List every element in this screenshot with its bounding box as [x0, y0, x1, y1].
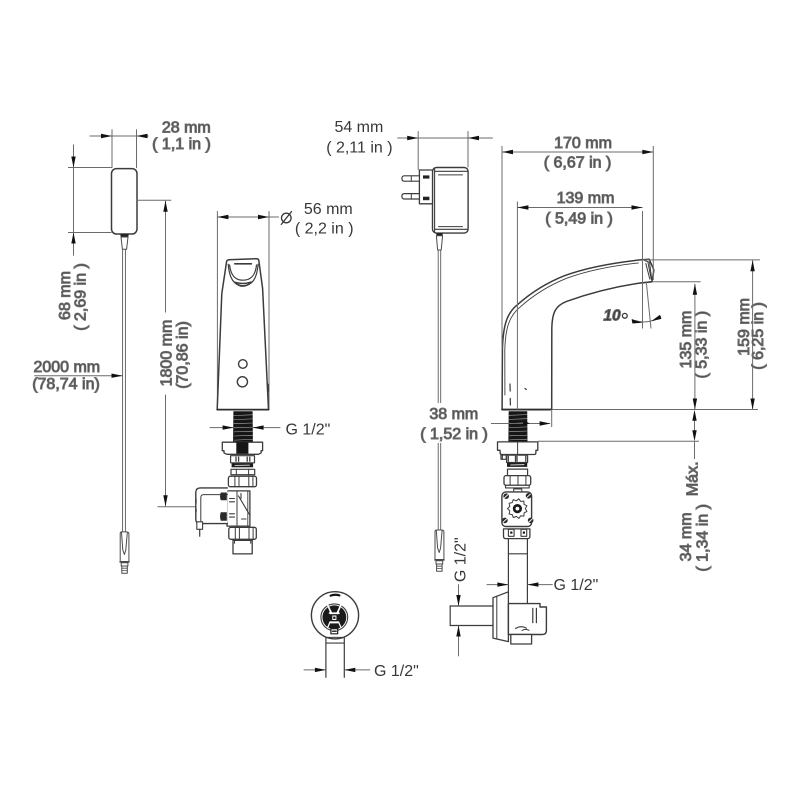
dimension 159 mm: line [752, 260, 754, 409]
gear pattern [508, 499, 527, 519]
strain relief cone [436, 236, 442, 250]
gland wire [199, 529, 201, 536]
svg-text:( 6,67 in ): ( 6,67 in ) [544, 154, 612, 171]
dimension 54 mm: extension lines [417, 132, 419, 170]
angle 10 deg: arc with arrows [632, 317, 661, 322]
solenoid valve body [502, 492, 532, 527]
dimension 139 mm: line [517, 207, 642, 209]
cable gland below box [197, 522, 203, 530]
flange side tab [501, 455, 506, 459]
tee interior marks [230, 494, 251, 520]
svg-text:38 mm: 38 mm [429, 406, 478, 423]
G 1/2 dimension (right pipe): lines [487, 584, 508, 586]
cable connector plug (right) [435, 530, 445, 571]
mounting flange [222, 442, 262, 454]
union nut (right) [504, 476, 531, 486]
thread hatch lines [234, 415, 253, 440]
spout top reference line [642, 259, 760, 261]
spout tip edge [645, 261, 653, 282]
control box inner lines [201, 495, 228, 524]
svg-text:( 2,11 in ): ( 2,11 in ) [326, 140, 392, 157]
mounting flange (right) [498, 442, 538, 455]
text mask for 38mm over cable [424, 403, 456, 443]
dimension 170 mm: extension lines [501, 146, 503, 350]
sensor lower lip [235, 282, 252, 283]
box mounting bolt lower [220, 512, 227, 520]
dimension 28 mm: arrows [101, 134, 112, 138]
inner ring circle [321, 604, 348, 631]
dimension Ø56 mm: extension lines [216, 212, 218, 410]
svg-text:G 1/2": G 1/2" [286, 421, 331, 438]
svg-text:2000 mm: 2000 mm [33, 359, 100, 376]
escutcheon bottom edge line [326, 642, 344, 644]
pipe joint line [508, 553, 527, 555]
adapter cable exit bushing [120, 234, 128, 237]
svg-text:1800 mm: 1800 mm [158, 320, 175, 387]
body front face line [434, 168, 436, 232]
wall supply pipe (horizontal) [450, 605, 493, 607]
dimension 38 mm: arrow at shank edge [523, 421, 530, 426]
body bottom inner line [435, 228, 468, 230]
dimension 170 mm: line [502, 151, 653, 153]
dark thread band [232, 463, 254, 467]
faucet base line [217, 409, 268, 411]
dimension max 34 mm: arrows [692, 410, 696, 421]
hex nut section (right) [507, 455, 528, 462]
inlet pipe end [233, 540, 252, 554]
dimension 38 mm: leader line [491, 423, 550, 425]
sensor window arc inner [230, 265, 257, 280]
elbow valve body [508, 604, 546, 635]
aerator inner blobs [327, 613, 331, 623]
dimension Ø56 mm: arrows [217, 215, 228, 219]
aerator top center blob [332, 606, 338, 613]
wall escutcheon (side view) [493, 592, 508, 642]
wall elbow front view: escutcheon outer circle [311, 592, 358, 639]
supply pipe (right, vertical) [507, 539, 509, 604]
svg-text:54 mm: 54 mm [334, 119, 383, 136]
union nut upper [228, 476, 256, 487]
power adapter (front view) body [112, 169, 138, 234]
prong upper [402, 176, 420, 181]
solenoid valve top tab [514, 489, 522, 492]
dimension 139 mm: extension lines [516, 202, 518, 410]
supply pipe (front view) [325, 638, 327, 678]
elbow body slots [532, 608, 534, 622]
svg-text:( 1,52 in ): ( 1,52 in ) [420, 426, 488, 443]
deck reference line [552, 409, 758, 411]
box left edge dashes [195, 500, 197, 503]
dimension 139 mm: arrows [517, 205, 528, 209]
dimension 68 mm: arrows [71, 157, 75, 168]
G 1/2 arrows [223, 425, 234, 429]
svg-text:(70,86 in): (70,86 in) [174, 321, 191, 389]
LED circle lower [237, 377, 247, 387]
dimension 54 mm: arrows [407, 136, 418, 140]
dimension max 34 mm: line segments [694, 413, 696, 438]
counter bottom reference line [538, 440, 699, 442]
prong slot marks [423, 175, 429, 178]
dimension 68 mm: extension lines [68, 167, 112, 169]
dimension 1800 mm: vertical line segments [165, 201, 167, 313]
cable connector plug (left) [120, 532, 129, 573]
dimension 28 mm: extension lines [111, 129, 113, 168]
collar section (right) [508, 469, 528, 476]
outlet face [640, 282, 652, 283]
sensor window arc outer [228, 264, 258, 285]
solenoid center ring [513, 504, 522, 513]
spout faucet outline (side view) [502, 259, 654, 409]
body tick marks [509, 384, 511, 391]
svg-text:( 5,49 in ): ( 5,49 in ) [545, 211, 613, 228]
sensor window upper slot [235, 263, 252, 265]
fitting axis line [517, 443, 519, 462]
svg-text:( 1,34 in ): ( 1,34 in ) [694, 504, 711, 572]
corner screws [503, 493, 509, 499]
dimension 170 mm: arrows [502, 150, 513, 154]
faucet base line (right) [502, 409, 552, 411]
hex nut section [231, 456, 255, 463]
tee valve body [227, 491, 250, 526]
svg-text:34 mm: 34 mm [678, 512, 695, 561]
svg-text:( 1,1 in ): ( 1,1 in ) [152, 136, 211, 153]
adapter cable (right) [437, 250, 439, 530]
wall pipe diameter dimension [458, 585, 460, 606]
threaded shank (black, right) [508, 411, 527, 442]
adapter cable (2000 mm) [122, 250, 124, 533]
svg-text:Máx.: Máx. [685, 461, 702, 496]
dimension Ø56 mm: line [217, 216, 278, 218]
G 1/2 arrows [315, 668, 326, 672]
dimension 54 mm: line [398, 137, 493, 139]
svg-text:135 mm: 135 mm [678, 311, 695, 369]
spout inner highlight curve [505, 263, 639, 395]
dimension Ø56 mm: diameter symbol [282, 213, 292, 223]
svg-text:28 mm: 28 mm [162, 120, 211, 137]
adapter strain relief cone [121, 237, 128, 249]
sensor faucet body (front view) [217, 259, 268, 410]
aerator white slits [328, 605, 331, 613]
svg-text:( 5,33 in ): ( 5,33 in ) [694, 311, 711, 379]
aerator center square [332, 615, 338, 621]
body top inner line [435, 170, 468, 172]
svg-text:56 mm: 56 mm [304, 201, 353, 218]
aerator hatch marks in tip [646, 264, 650, 280]
svg-text:(78,74 in): (78,74 in) [32, 376, 100, 393]
svg-text:G 1/2": G 1/2" [374, 663, 419, 680]
strain relief bushing (black) [436, 233, 443, 235]
body bottom decor line [439, 226, 463, 228]
leader 2000 mm: line with arrow to cable [34, 375, 122, 377]
outlet reference line [653, 281, 701, 283]
svg-text:170 mm: 170 mm [554, 135, 612, 152]
elbow water mark [516, 627, 527, 629]
union nut lower [229, 527, 256, 539]
dimension 1800 mm: top leader from adapter [136, 199, 171, 201]
dimension 135 mm: arrows [693, 284, 697, 295]
escutcheon top inner arc mark [331, 594, 340, 597]
LED circle upper [239, 360, 248, 369]
solenoid bottom connector [504, 529, 530, 539]
prong lower [402, 194, 420, 199]
power adapter (side view) body [433, 168, 469, 234]
G 1/2 dimension (mid faucet): lines [210, 427, 233, 429]
aerator bottom tab [331, 629, 338, 634]
dark thread band (right) [507, 463, 527, 467]
dimension 1800 mm: bottom extension line [158, 506, 196, 508]
angle 10 deg: tilted axis line [646, 282, 651, 329]
elbow bottom port [511, 635, 532, 645]
svg-text:( 6,25 in ): ( 6,25 in ) [750, 302, 767, 370]
G 1/2 dimension (front view): lines [304, 669, 326, 671]
plug base block [419, 170, 432, 204]
svg-text:G 1/2": G 1/2" [554, 577, 599, 594]
dimension 68 mm: line [73, 145, 75, 256]
dimension 159 mm: arrows [750, 260, 754, 271]
svg-text:( 2,2 in ): ( 2,2 in ) [295, 221, 354, 238]
svg-text:G 1/2": G 1/2" [453, 537, 470, 582]
supply pipe top edge [326, 636, 344, 638]
body edge shade dash [267, 384, 269, 391]
dimension 135 mm: line [694, 284, 696, 410]
svg-text:139 mm: 139 mm [557, 190, 615, 207]
svg-text:10: 10 [603, 308, 621, 325]
collar section [231, 469, 255, 474]
box mounting bolt upper [220, 493, 227, 501]
threaded shank (black) [233, 411, 253, 442]
threaded rod through flange [236, 442, 248, 454]
dimension 38 mm: extension line [551, 411, 553, 427]
body top decor line [439, 174, 463, 176]
dimension 28 mm: line [90, 135, 149, 137]
union nut bottom rim [506, 485, 530, 488]
dimension 1800 mm: arrows [163, 201, 167, 212]
svg-text:( 2,69 in ): ( 2,69 in ) [73, 263, 90, 331]
svg-text:68 mm: 68 mm [57, 271, 74, 320]
aerator dark ring [322, 605, 346, 629]
control box (left of tee) [196, 488, 228, 524]
